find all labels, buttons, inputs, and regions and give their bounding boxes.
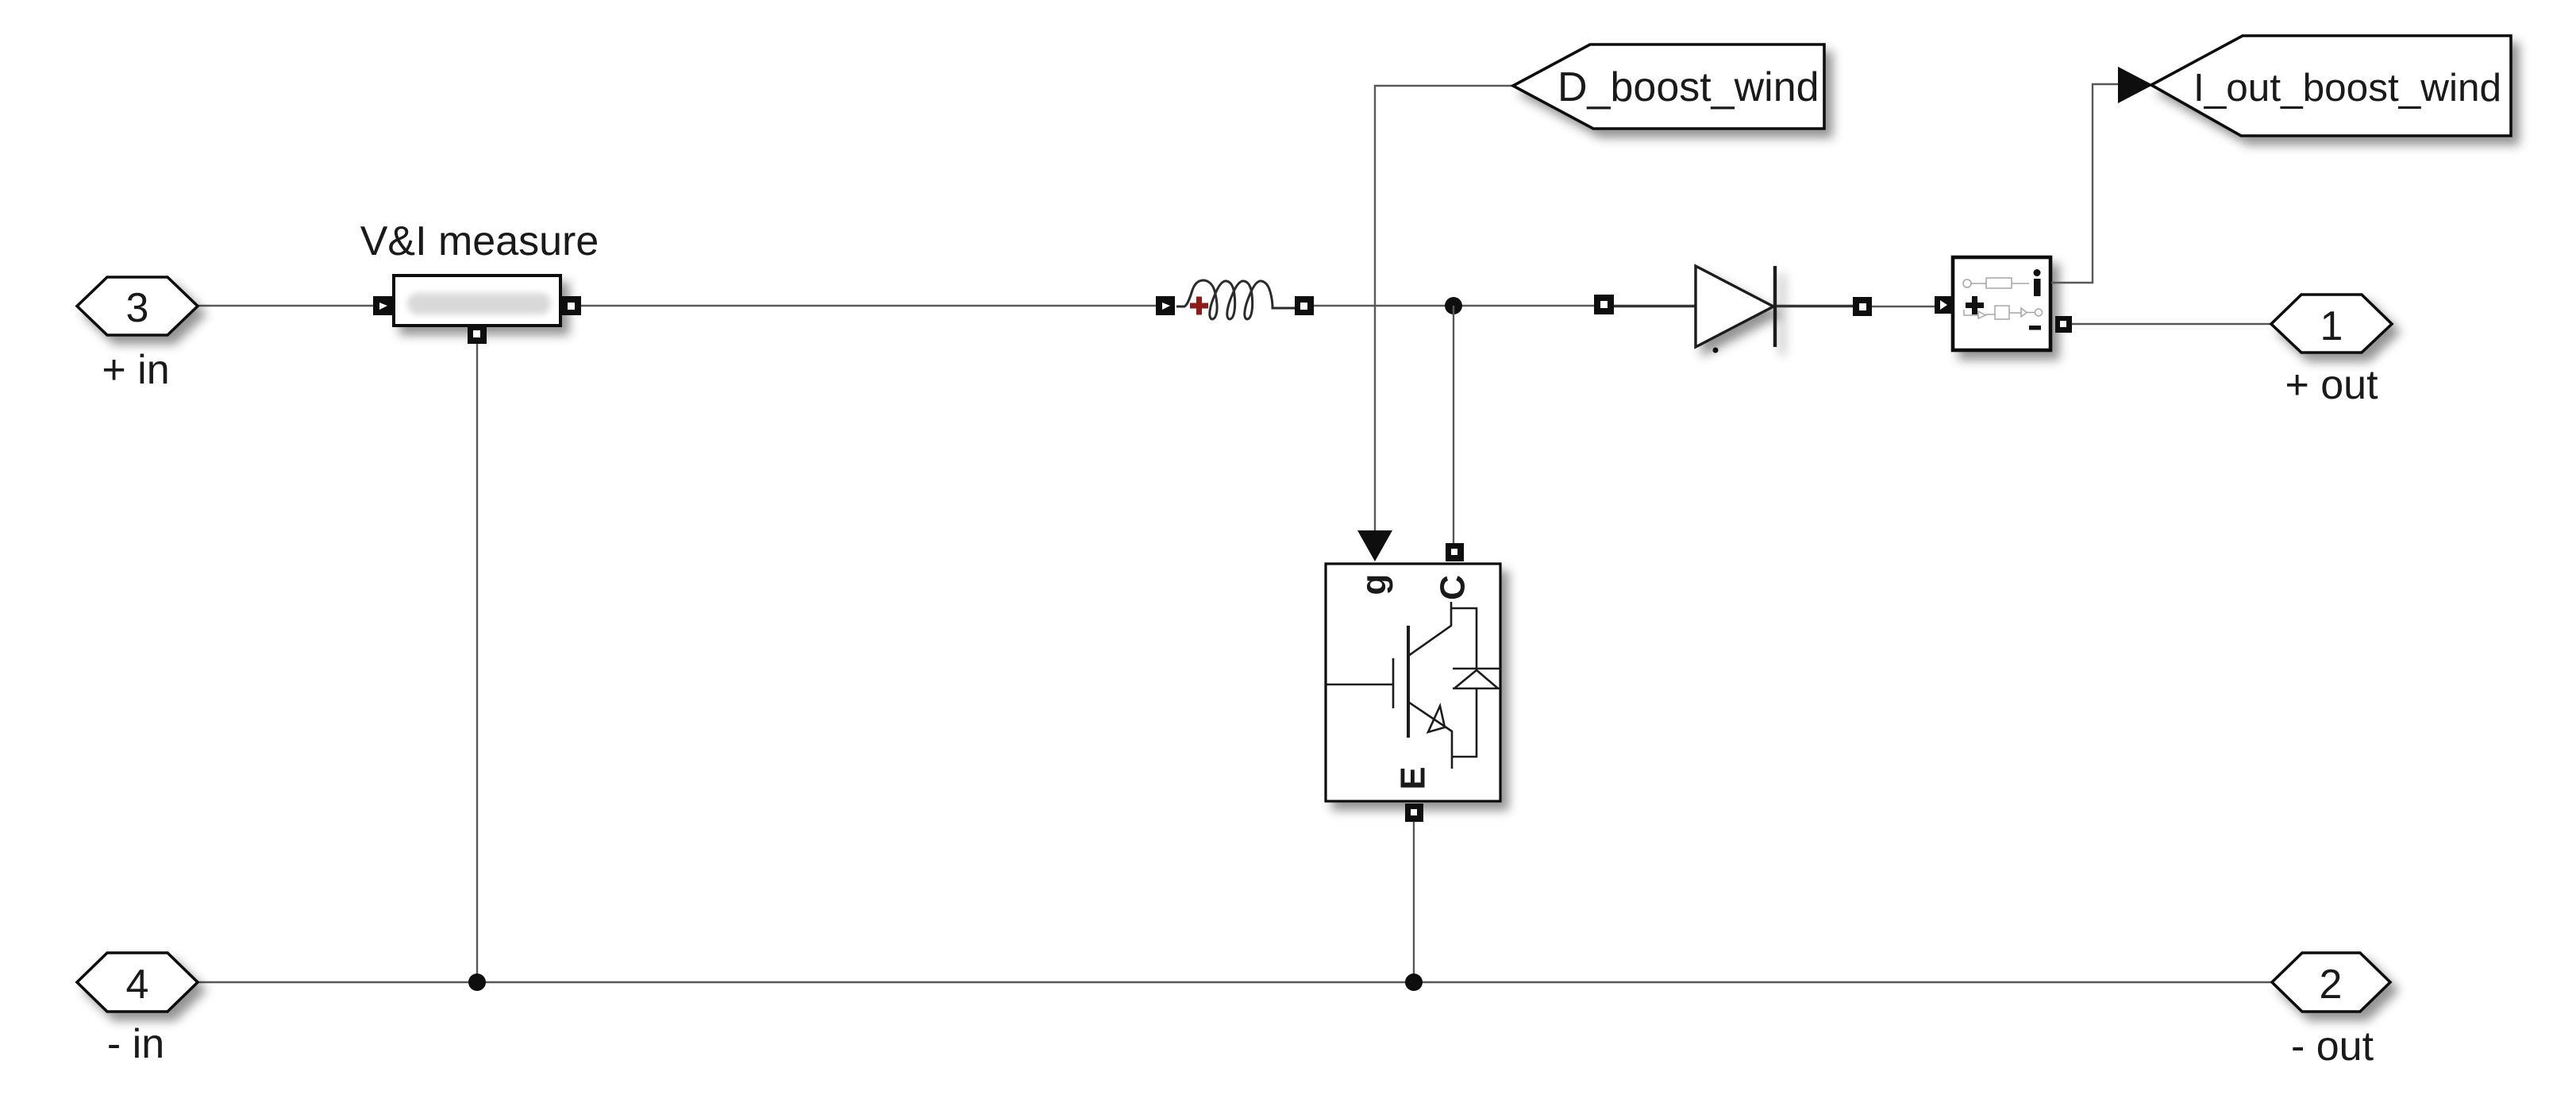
goto tag I_out_boost_wind	[2151, 36, 2511, 136]
node - in label	[107, 1021, 164, 1067]
node + out label	[2285, 362, 2378, 408]
goto tag D_boost_wind	[1513, 44, 1824, 129]
wire	[581, 305, 1156, 306]
node + in label	[102, 347, 169, 393]
port 3	[77, 277, 198, 335]
port square V&I left	[373, 296, 392, 315]
inductor L1 port right	[1295, 296, 1314, 315]
wire	[1872, 306, 1935, 307]
arrowhead into IGBT gate	[1357, 530, 1392, 561]
svg-text:D_boost_wind: D_boost_wind	[1558, 64, 1819, 110]
port 2	[2272, 953, 2390, 1012]
svg-text:g: g	[1355, 574, 1394, 596]
IGBT C port square	[1446, 543, 1464, 561]
V&I measure block name	[360, 218, 599, 264]
svg-text:I_out_boost_wind: I_out_boost_wind	[2193, 66, 2501, 110]
V&I measure block U1	[394, 276, 560, 326]
arrowhead I_out	[2118, 67, 2153, 103]
diode label dot	[1713, 348, 1719, 353]
svg-text:- out: - out	[2291, 1024, 2374, 1070]
wire	[476, 344, 478, 982]
svg-text:- in: - in	[107, 1021, 164, 1067]
junction node A	[1445, 297, 1462, 314]
IGBT block Q1	[1326, 564, 1500, 801]
svg-text:+ out: + out	[2285, 362, 2378, 408]
inductor L1 port left	[1156, 296, 1175, 315]
ammeter internals	[1963, 278, 2043, 319]
current measurement block U2	[1953, 257, 2050, 350]
ammeter minus port	[2055, 316, 2072, 333]
ammeter port left	[1935, 296, 1952, 314]
ammeter i label	[2034, 269, 2041, 296]
IGBT E port square	[1405, 804, 1423, 822]
wire	[1614, 305, 1696, 307]
port square after diode	[1853, 297, 1872, 316]
svg-text:3: 3	[126, 285, 149, 331]
IGBT C label	[1434, 575, 1473, 600]
junction node C	[468, 973, 486, 991]
port square V&I right	[562, 296, 581, 315]
diode D1	[1696, 266, 1775, 347]
ammeter minus label	[2029, 326, 2041, 330]
polarity + mark	[1190, 297, 1208, 315]
wire D_boost_wind vertical	[1375, 86, 1513, 531]
svg-text:V&I measure: V&I measure	[360, 218, 599, 264]
IGBT g label	[1355, 574, 1394, 596]
inductor L1 coil	[1176, 280, 1295, 319]
wire minus out	[2072, 323, 2271, 325]
port 1	[2271, 295, 2392, 353]
svg-text:C: C	[1434, 575, 1473, 600]
svg-text:E: E	[1394, 766, 1433, 789]
svg-text:2: 2	[2320, 962, 2343, 1008]
wire	[198, 305, 373, 306]
IGBT E label	[1394, 766, 1433, 789]
blurred name bar	[407, 293, 551, 314]
wire	[1777, 305, 1853, 307]
svg-text:1: 1	[2320, 303, 2343, 349]
IGBT internals	[1326, 602, 1500, 769]
svg-text:+ in: + in	[102, 347, 169, 393]
ammeter plus label	[1966, 296, 1984, 314]
svg-text:4: 4	[126, 962, 149, 1008]
node - out label	[2291, 1024, 2374, 1070]
port square V&I bottom	[468, 325, 487, 344]
wire	[1314, 305, 1594, 306]
wire to IGBT collector	[1453, 306, 1454, 543]
junction node B	[1405, 973, 1423, 991]
port square before diode	[1594, 295, 1614, 314]
wire i output	[2051, 84, 2118, 283]
port 4	[77, 953, 198, 1012]
wire emitter down	[1413, 822, 1415, 982]
bottom rail wire	[198, 981, 2272, 983]
